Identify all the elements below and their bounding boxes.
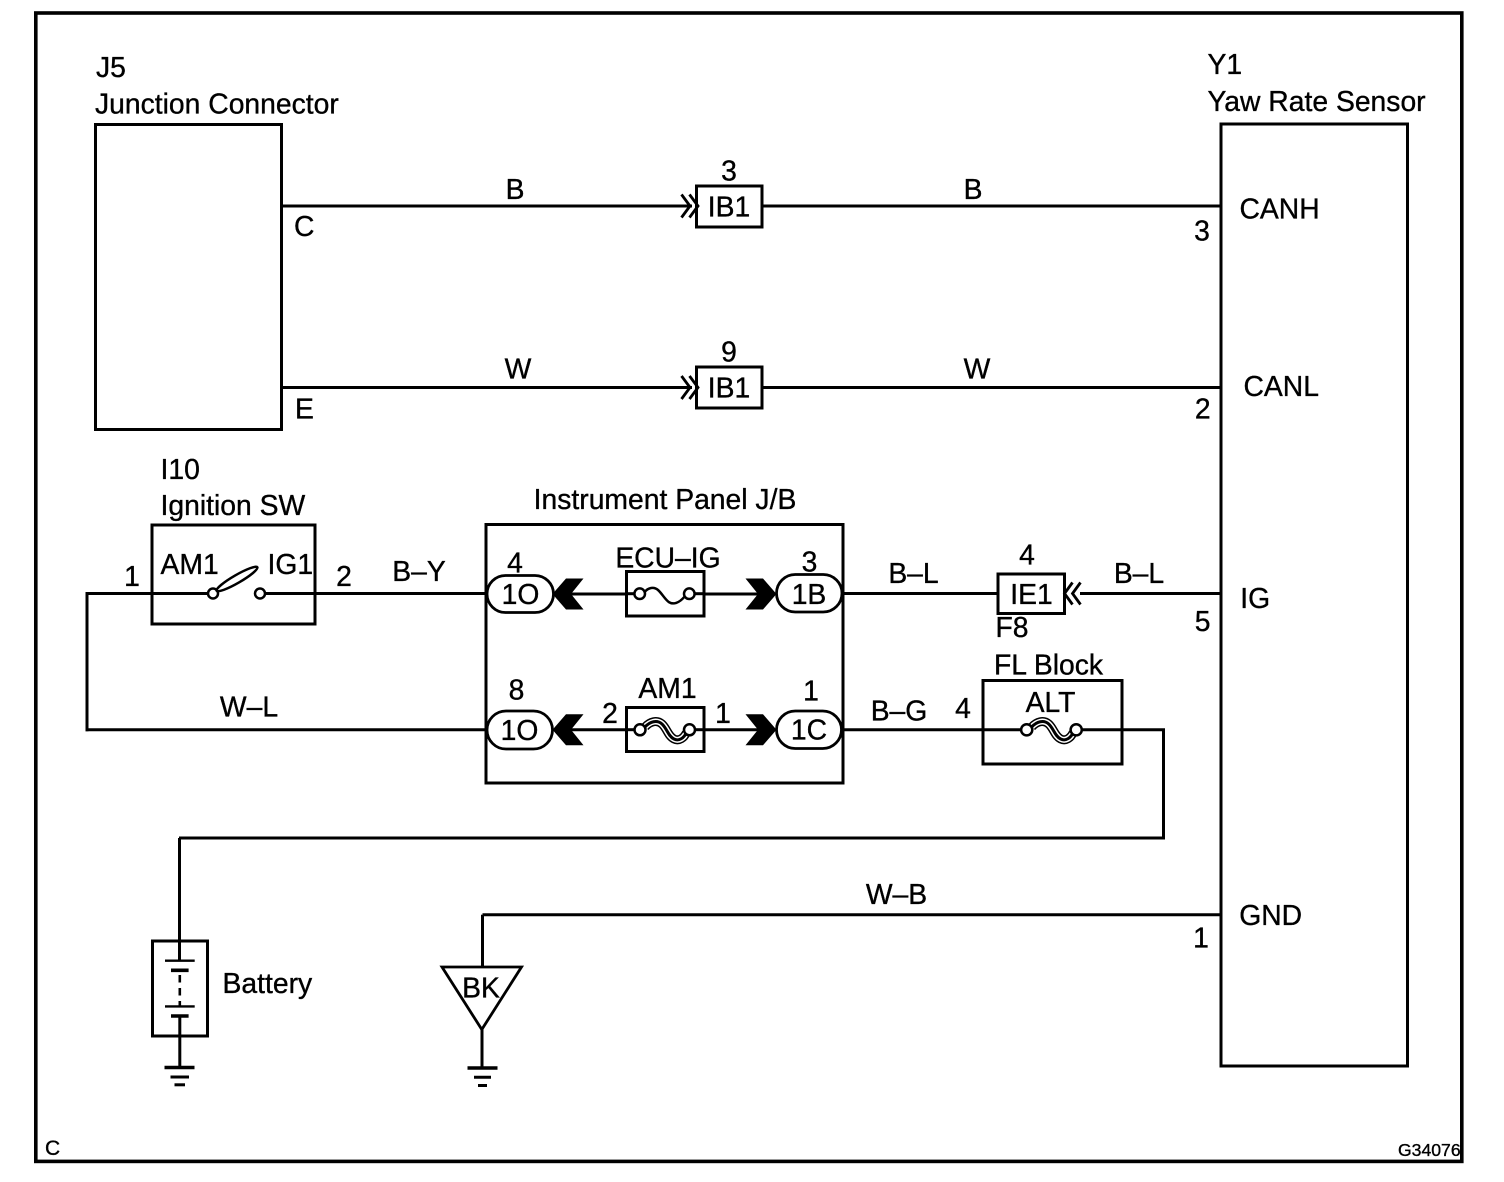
svg-text:W: W	[505, 353, 532, 385]
switch lever	[215, 564, 260, 594]
wire fuse AM1 to arrow	[704, 728, 760, 731]
svg-text:IB1: IB1	[708, 191, 750, 223]
svg-text:ALT: ALT	[1026, 686, 1076, 718]
wire down to BK triangle	[481, 915, 484, 968]
svg-text:Y1: Y1	[1208, 48, 1243, 80]
svg-text:1C: 1C	[791, 714, 827, 746]
svg-text:B: B	[506, 173, 525, 205]
svg-text:C: C	[45, 1137, 60, 1160]
svg-text:4: 4	[1019, 539, 1035, 571]
wire W from J5 pin E to IB1	[282, 386, 693, 389]
arrow left (AM1 row)	[553, 714, 584, 745]
ignition switch I10 box	[152, 525, 315, 624]
fusible link AM1 box	[627, 708, 705, 752]
ground symbol under battery	[165, 1068, 195, 1085]
wire W from IB1 to Y1 CANL	[762, 386, 1221, 389]
connector IB1 (CANL) box	[697, 367, 763, 408]
svg-text:3: 3	[721, 155, 737, 187]
arrow right (AM1 row)	[746, 714, 777, 745]
connector IB1 (CANH) box	[697, 186, 763, 227]
fusible link ALT terminal circle right	[1071, 724, 1082, 735]
svg-text:J5: J5	[96, 51, 126, 83]
arrow right (ECU-IG row)	[746, 579, 777, 610]
fusible link ALT element	[1032, 722, 1074, 740]
svg-text:4: 4	[507, 547, 523, 579]
ground symbol under BK	[468, 1068, 498, 1086]
svg-text:1O: 1O	[501, 714, 539, 746]
svg-text:1: 1	[1193, 922, 1209, 954]
svg-text:F8: F8	[996, 611, 1029, 643]
svg-text:GND: GND	[1239, 899, 1302, 931]
svg-text:IE1: IE1	[1010, 578, 1052, 610]
svg-text:1B: 1B	[792, 578, 827, 610]
svg-text:1O: 1O	[502, 578, 540, 610]
wire below BK triangle	[481, 1030, 484, 1067]
wire W-B from BK to Y1 GND	[483, 913, 1222, 916]
wire from ALT to corner	[1082, 728, 1165, 731]
battery box	[153, 941, 208, 1036]
svg-text:2: 2	[336, 560, 352, 592]
fusible link AM1 element	[645, 722, 687, 740]
junction connector J5 box	[96, 125, 282, 430]
svg-text:AM1: AM1	[161, 548, 219, 580]
chevron arrows into IE1	[1065, 583, 1081, 605]
svg-text:Junction Connector: Junction Connector	[95, 88, 339, 120]
wire across to battery	[179, 837, 1165, 840]
ground triangle BK	[442, 967, 522, 1030]
yaw rate sensor Y1 box	[1221, 124, 1408, 1066]
wire from switch IG1 to J/B	[265, 592, 488, 595]
svg-text:ECU–IG: ECU–IG	[615, 542, 720, 574]
ignition switch I10 label	[161, 453, 306, 521]
wire B from IB1 to Y1 CANH	[762, 205, 1221, 208]
wire down from pin 1	[86, 592, 89, 731]
svg-text:IG: IG	[1240, 582, 1270, 614]
connector oval 1O (pin 8)	[487, 711, 553, 749]
instrument panel J/B box	[486, 525, 843, 784]
wire fuse to arrow	[704, 593, 760, 596]
connector oval 1C	[777, 711, 842, 749]
fuse ECU-IG terminal circle left	[634, 588, 645, 599]
svg-text:W: W	[964, 353, 991, 385]
svg-text:4: 4	[955, 692, 971, 724]
switch contact circle AM1	[208, 589, 218, 599]
fuse ECU-IG box	[627, 572, 705, 617]
arrow left (ECU-IG row)	[553, 579, 584, 610]
svg-text:Instrument Panel J/B: Instrument Panel J/B	[534, 483, 797, 515]
svg-text:CANL: CANL	[1244, 370, 1319, 402]
svg-text:B–L: B–L	[1114, 557, 1164, 589]
wire oval to fuse AM1	[569, 728, 628, 731]
fuse ECU-IG element wave	[645, 588, 685, 603]
wire B from J5 pin C to IB1	[282, 205, 693, 208]
connector IE1 box	[998, 574, 1065, 614]
svg-text:C: C	[294, 210, 314, 242]
fusible link AM1 wire stubs	[627, 728, 637, 731]
svg-text:CANH: CANH	[1240, 193, 1320, 225]
svg-text:IB1: IB1	[708, 372, 750, 404]
wire B-L from J/B to IE1	[842, 592, 998, 595]
svg-text:9: 9	[721, 336, 737, 368]
svg-text:5: 5	[1195, 605, 1211, 637]
wire B-L from IE1 to Y1 IG	[1080, 592, 1221, 595]
svg-text:B–L: B–L	[888, 557, 938, 589]
svg-text:E: E	[295, 393, 314, 425]
connector oval 1O (pin 4)	[487, 576, 554, 613]
wire down to battery	[178, 838, 181, 960]
junction connector J5 label	[95, 51, 339, 120]
svg-text:2: 2	[602, 697, 618, 729]
connector oval 1B	[777, 575, 843, 613]
wire oval to fuse	[569, 593, 628, 596]
svg-text:1: 1	[715, 697, 731, 729]
fusible link ALT terminal circle left	[1021, 724, 1032, 735]
fusible link AM1 terminal circle left	[635, 724, 646, 735]
wire W-L to J/B	[86, 728, 488, 731]
svg-text:Battery: Battery	[223, 967, 313, 999]
svg-text:8: 8	[509, 674, 525, 706]
fusible link AM1 terminal circle right	[684, 724, 695, 735]
svg-text:Yaw Rate Sensor: Yaw Rate Sensor	[1208, 85, 1426, 117]
switch contact circle IG1	[255, 589, 265, 599]
svg-text:2: 2	[1195, 393, 1211, 425]
wire down from FL block	[1162, 730, 1165, 840]
chevron arrows into IB1 (CANL)	[682, 376, 699, 399]
svg-text:AM1: AM1	[638, 672, 696, 704]
svg-text:1: 1	[803, 675, 819, 707]
svg-text:FL Block: FL Block	[994, 649, 1104, 681]
svg-text:Ignition SW: Ignition SW	[161, 489, 306, 521]
svg-text:W–B: W–B	[866, 878, 927, 910]
svg-text:B–Y: B–Y	[392, 555, 446, 587]
svg-text:3: 3	[802, 546, 818, 578]
battery cell plates	[165, 961, 195, 1066]
FL block box	[983, 681, 1122, 765]
yaw rate sensor Y1 label	[1208, 48, 1426, 117]
fuse ECU-IG terminal circle right	[684, 588, 695, 599]
fuse ECU-IG wire stubs	[627, 592, 636, 595]
svg-text:B: B	[964, 173, 983, 205]
wire B-G from J/B to FL block	[842, 728, 1022, 731]
chevron arrows into IB1 (CANH)	[682, 195, 699, 218]
svg-text:I10: I10	[161, 453, 200, 485]
svg-text:3: 3	[1194, 215, 1210, 247]
svg-text:G34076: G34076	[1398, 1140, 1461, 1160]
svg-text:W–L: W–L	[220, 691, 278, 723]
svg-text:IG1: IG1	[268, 548, 314, 580]
svg-text:B–G: B–G	[871, 695, 928, 727]
wire into switch AM1	[86, 592, 209, 595]
svg-text:BK: BK	[462, 972, 500, 1004]
svg-text:1: 1	[124, 560, 140, 592]
